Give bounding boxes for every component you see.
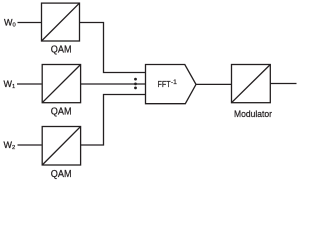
QAM block U1	[42, 3, 80, 41]
wire W1 input	[17, 83, 42, 85]
Modulator block U5	[232, 65, 271, 103]
QAM block U2	[42, 65, 80, 103]
node ellipsis dots	[134, 78, 137, 90]
wire Modulator output	[270, 83, 296, 85]
svg-text:Modulator: Modulator	[234, 109, 273, 120]
wire QAM U3 output to FFT input	[81, 95, 146, 146]
wire W2 input	[18, 144, 42, 146]
IFFT block U4	[146, 65, 197, 104]
wire QAM U1 output to FFT input	[80, 23, 146, 73]
svg-text:QAM: QAM	[51, 44, 72, 55]
svg-text:QAM: QAM	[51, 107, 72, 118]
QAM block U3	[42, 127, 80, 166]
wire W0 input	[18, 22, 42, 24]
wire FFT output to Modulator	[196, 83, 232, 85]
svg-text:FFT: FFT	[158, 79, 171, 89]
svg-text:QAM: QAM	[51, 169, 72, 180]
svg-text:-1: -1	[171, 79, 177, 86]
wire QAM U2 output to FFT input	[81, 83, 146, 85]
